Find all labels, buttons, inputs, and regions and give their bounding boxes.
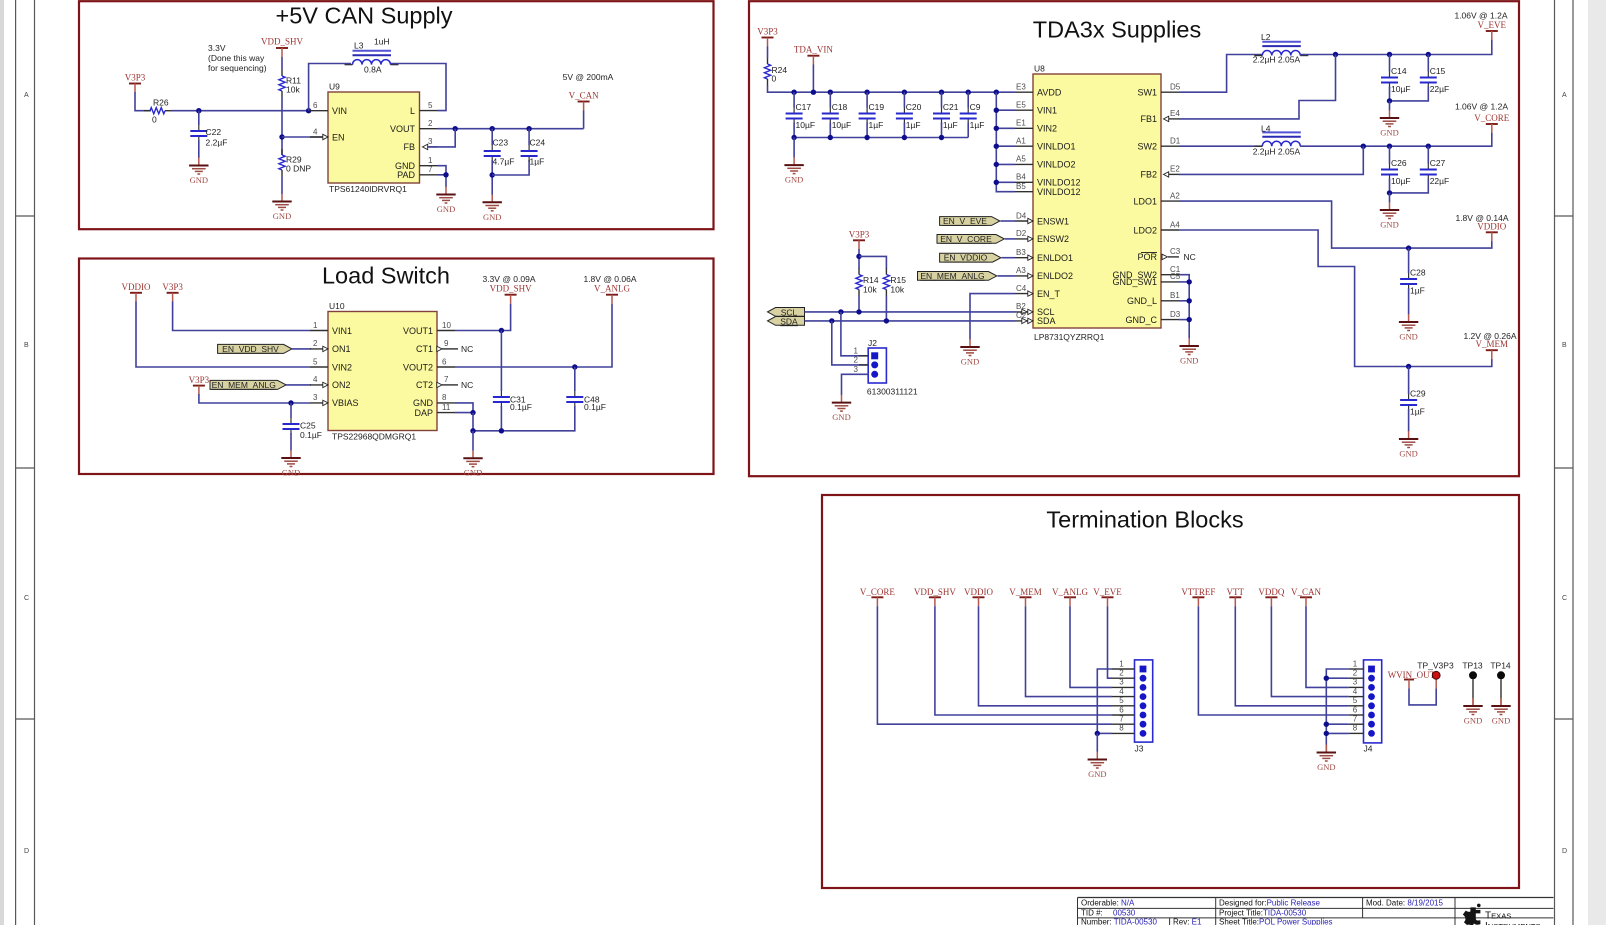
J3 pin 1 (1112, 668, 1135, 670)
svg-text:FB1: FB1 (1140, 114, 1157, 124)
power V_EVE (1093, 587, 1122, 607)
svg-text:V3P3: V3P3 (162, 282, 183, 292)
TI logo (1463, 904, 1541, 925)
svg-text:Sheet Title:POL Power Supplies: Sheet Title:POL Power Supplies (1219, 918, 1333, 925)
capacitor C17 (786, 92, 815, 137)
J3 pin 7 (1112, 723, 1135, 725)
svg-text:6: 6 (442, 357, 447, 366)
svg-text:VTTREF: VTTREF (1181, 587, 1215, 597)
capacitor C23 (484, 129, 515, 167)
svg-text:D3: D3 (1170, 310, 1181, 319)
junction (1426, 52, 1431, 57)
svg-text:1uH: 1uH (374, 37, 390, 47)
svg-text:EN: EN (332, 132, 345, 142)
svg-text:CT2: CT2 (416, 380, 433, 390)
svg-text:V_CORE: V_CORE (860, 587, 896, 597)
svg-text:2: 2 (313, 339, 318, 348)
svg-text:LP8731QYZRRQ1: LP8731QYZRRQ1 (1034, 332, 1105, 342)
wire rail to gnd (472, 431, 474, 451)
junction (1387, 52, 1392, 57)
wire V3P3 to VBIAS (199, 394, 310, 403)
wire L4 to V_CORE (1300, 133, 1492, 147)
wire VOUT net (438, 128, 584, 130)
svg-text:8: 8 (442, 393, 447, 402)
junction (811, 90, 816, 95)
wire V_MEM to J3 pin4 (1026, 606, 1113, 696)
J3 pin 6 (1112, 714, 1135, 716)
capacitor C28 (1400, 248, 1426, 314)
svg-text:ENLDO1: ENLDO1 (1037, 253, 1073, 263)
svg-text:Number: TIDA-00530: Number: TIDA-00530 (1081, 918, 1157, 925)
op-amp U9 TPS61240IDRVRQ1 (310, 82, 438, 195)
power V_MEM (1476, 339, 1509, 359)
J4 pin 5 (1349, 705, 1364, 707)
ground (832, 395, 851, 423)
junction (443, 172, 448, 177)
U8 pin D4 ENSW1 (1015, 211, 1069, 226)
ground (1491, 698, 1510, 726)
power V3P3 pullups (849, 229, 870, 249)
resistor R24 (764, 58, 787, 85)
svg-text:B: B (24, 342, 29, 349)
svg-text:VIN1: VIN1 (332, 326, 352, 336)
ground (784, 157, 803, 185)
J4 pin 2 (1349, 677, 1364, 679)
svg-text:LDO1: LDO1 (1133, 196, 1157, 206)
U8 pin E5 VIN1 (1015, 101, 1057, 116)
wire V3P3 to R24 (767, 47, 769, 59)
U10 pin 11 DAP (414, 403, 455, 418)
wire VDDIO to VIN2 (136, 302, 310, 368)
svg-text:VOUT: VOUT (390, 124, 416, 134)
wire to R15 (859, 256, 886, 269)
svg-text:C: C (1562, 595, 1567, 602)
svg-text:B1: B1 (1170, 291, 1180, 300)
wire VIN bus (996, 92, 1015, 192)
junction (994, 144, 999, 149)
svg-text:10µF: 10µF (832, 120, 852, 130)
wire L2 to V_EVE (1300, 40, 1492, 55)
junction (994, 180, 999, 185)
svg-text:VDDQ: VDDQ (1258, 587, 1284, 597)
flag EN_VDD_SHV (218, 344, 292, 354)
svg-text:U10: U10 (329, 301, 345, 311)
junction (1324, 676, 1329, 681)
svg-text:Project Title:TIDA-00530: Project Title:TIDA-00530 (1219, 908, 1307, 917)
svg-text:C19: C19 (869, 102, 885, 112)
U8 pin B3 ENLDO1 (1015, 248, 1073, 263)
wire bus to gnd (1096, 733, 1098, 752)
wire SDA to J2 pin2 (832, 321, 868, 365)
svg-text:V3P3: V3P3 (125, 73, 146, 83)
wire V_CAN (583, 111, 585, 129)
U10 pin 5 VIN2 (310, 357, 352, 372)
U8 pin A3 ENLDO2 (1015, 266, 1073, 281)
U10 pin 10 VOUT1 (403, 321, 455, 336)
svg-text:C20: C20 (906, 102, 922, 112)
U9 pin 6 VIN (310, 101, 347, 116)
wire J4 pin2 (1326, 677, 1349, 679)
wire C25 top lead (290, 403, 292, 418)
svg-text:D4: D4 (1016, 211, 1027, 220)
wire C23 bottom (491, 160, 493, 195)
svg-text:C26: C26 (1391, 158, 1407, 168)
junction (939, 135, 944, 140)
svg-text:E1: E1 (1016, 119, 1026, 128)
flag SDA (768, 316, 805, 326)
svg-text:3.3V @ 0.09A: 3.3V @ 0.09A (482, 274, 535, 284)
power V_CAN (1291, 587, 1322, 607)
wire GND/PAD tie (438, 166, 447, 175)
svg-text:V_EVE: V_EVE (1093, 587, 1122, 597)
svg-text:1: 1 (854, 347, 859, 356)
capacitor C29 (1400, 367, 1426, 432)
svg-text:0.8A: 0.8A (364, 65, 382, 75)
wire V3P3 to R26 (135, 92, 151, 111)
capacitor C24 (521, 129, 546, 167)
ground (960, 339, 979, 367)
wire SW1 to L2 (1179, 55, 1262, 93)
junction (966, 90, 971, 95)
svg-text:C2: C2 (1016, 311, 1027, 320)
power V_CORE (860, 587, 896, 607)
svg-text:C3: C3 (1170, 247, 1181, 256)
svg-text:TP_V3P3: TP_V3P3 (1417, 661, 1454, 671)
svg-text:D: D (24, 848, 29, 855)
svg-text:1µF: 1µF (869, 120, 884, 130)
block border: TDA3x Supplies (749, 1, 1519, 476)
wire TDA_VIN stub (812, 65, 814, 93)
svg-text:61300311121: 61300311121 (867, 387, 918, 397)
connector J4 (1349, 659, 1382, 753)
ground (436, 187, 455, 215)
wire FB2 sense (1179, 146, 1363, 174)
U9 pin 2 VOUT (390, 119, 438, 134)
wire V3P3 to VIN1 (173, 302, 310, 331)
svg-text:4.7µF: 4.7µF (493, 157, 515, 167)
svg-text:10k: 10k (890, 285, 904, 295)
flag SCL (768, 307, 805, 317)
junction (791, 135, 796, 140)
svg-text:11: 11 (442, 403, 451, 412)
wire C22 lead (198, 111, 200, 125)
svg-text:0 DNP: 0 DNP (286, 164, 311, 174)
svg-text:1.8V @ 0.06A: 1.8V @ 0.06A (583, 274, 636, 284)
U10 pin 8 GND (413, 393, 455, 408)
ground (1088, 752, 1107, 780)
U8 pin B4 VINLDO12 (1015, 173, 1081, 188)
U8 pin C3 POR (1137, 247, 1195, 262)
U10 pin 2 ON1 (310, 339, 351, 354)
junction (1333, 52, 1338, 57)
svg-text:C23: C23 (493, 138, 509, 148)
svg-text:3: 3 (428, 137, 433, 146)
capacitor C22 (190, 125, 227, 148)
svg-text:C22: C22 (206, 127, 222, 137)
svg-text:D2: D2 (1016, 229, 1027, 238)
svg-text:WVIN_OUT: WVIN_OUT (1388, 670, 1436, 680)
svg-text:2: 2 (1119, 669, 1124, 678)
block border: Load Switch (79, 259, 714, 475)
svg-text:LDO2: LDO2 (1133, 225, 1157, 235)
svg-text:J2: J2 (868, 338, 877, 348)
svg-text:2: 2 (854, 356, 859, 365)
junction (1324, 722, 1329, 727)
svg-text:22µF: 22µF (1430, 84, 1450, 94)
U9 pin 3 FB (403, 137, 437, 152)
svg-text:A3: A3 (1016, 266, 1026, 275)
svg-text:E5: E5 (1016, 101, 1026, 110)
svg-text:NC: NC (461, 380, 473, 390)
svg-text:TP14: TP14 (1490, 661, 1511, 671)
capacitor C27 (1390, 146, 1450, 193)
svg-text:7: 7 (444, 375, 449, 384)
junction (994, 90, 999, 95)
wire V3P3 to R14/R15 (858, 249, 860, 269)
svg-text:R15: R15 (890, 275, 906, 285)
svg-text:3: 3 (313, 393, 318, 402)
svg-text:EN_MEM_ANLG: EN_MEM_ANLG (212, 380, 276, 390)
svg-text:FB2: FB2 (1140, 170, 1157, 180)
junction (470, 410, 475, 415)
svg-text:VIN2: VIN2 (1037, 124, 1057, 134)
svg-text:5: 5 (428, 101, 433, 110)
U10 pin 9 CT1 (416, 339, 473, 354)
junction (196, 108, 201, 113)
svg-text:VIN1: VIN1 (1037, 106, 1057, 116)
svg-text:SDA: SDA (1037, 316, 1056, 326)
wire DAP pin11 (455, 412, 473, 414)
wire SCL net (805, 311, 1016, 313)
svg-text:C: C (24, 595, 29, 602)
svg-text:D1: D1 (1170, 137, 1181, 146)
wire VOUT2 to V_ANLG (455, 304, 612, 367)
capacitor C25 (283, 418, 322, 440)
ground (189, 158, 208, 186)
U10 pin 3 VBIAS (310, 393, 359, 408)
U10 pin 6 VOUT2 (403, 357, 455, 372)
svg-text:A1: A1 (1016, 137, 1026, 146)
svg-text:4: 4 (1119, 687, 1124, 696)
svg-text:ON2: ON2 (332, 380, 351, 390)
J2 pin 1 (871, 352, 878, 359)
svg-text:8: 8 (1119, 724, 1124, 733)
wire C25 to gnd (290, 433, 292, 451)
U8 pin E4 FB1 (1140, 109, 1180, 124)
junction (902, 135, 907, 140)
junction (1387, 144, 1392, 149)
inductor L3 (345, 37, 399, 75)
U8 pin D3 GND_C (1125, 310, 1180, 325)
svg-text:2.2µH 2.05A: 2.2µH 2.05A (1253, 55, 1301, 65)
svg-text:A5: A5 (1016, 155, 1026, 164)
svg-text:ENLDO2: ENLDO2 (1037, 271, 1073, 281)
svg-text:B4: B4 (1016, 173, 1026, 182)
svg-text:ENSW2: ENSW2 (1037, 234, 1069, 244)
svg-text:5V @ 200mA: 5V @ 200mA (563, 72, 614, 82)
wire VTT to J4 pin5 (1235, 606, 1349, 706)
power V_ANLG (1052, 587, 1088, 607)
junction (306, 108, 311, 113)
svg-text:10µF: 10µF (1391, 84, 1411, 94)
svg-text:C5: C5 (1170, 272, 1181, 281)
svg-text:V3P3: V3P3 (757, 27, 778, 37)
svg-text:22µF: 22µF (1430, 176, 1450, 186)
wire J3 pin1 to gnd bus (1097, 669, 1112, 733)
U8 pin B5 VINLDO12 (1015, 182, 1081, 197)
junction (526, 126, 531, 131)
svg-text:EN_VDD_SHV: EN_VDD_SHV (222, 344, 279, 354)
J3 pin 3 (1112, 686, 1135, 688)
wire V_ANLG to J3 pin3 (1070, 606, 1112, 687)
test point TP14 (1490, 661, 1511, 706)
U8 pin D1 SW2 (1137, 137, 1180, 152)
wire VIN node up to L3 (309, 64, 351, 111)
svg-text:GND_L: GND_L (1127, 296, 1157, 306)
junction (1361, 144, 1366, 149)
junction (453, 126, 458, 131)
J4 pin 8 (1349, 732, 1364, 734)
U8 pin B1 GND_L (1127, 291, 1180, 306)
svg-text:1.06V @ 1.2A: 1.06V @ 1.2A (1455, 102, 1508, 112)
wire C23-C24 bottom tie (492, 160, 529, 175)
capacitor C18 (822, 92, 851, 137)
svg-text:VDDIO: VDDIO (122, 282, 151, 292)
wire bus tee VINLDO1 (996, 145, 1015, 147)
wire R24 to AVDD rail (768, 85, 1016, 92)
svg-text:2: 2 (428, 119, 433, 128)
svg-text:10µF: 10µF (1391, 176, 1411, 186)
power VDD_SHV out (490, 284, 533, 304)
svg-text:VOUT1: VOUT1 (403, 326, 433, 336)
svg-text:0.1µF: 0.1µF (510, 402, 532, 412)
U10 pin 4 ON2 (310, 375, 351, 390)
resistor R14 (856, 269, 879, 296)
svg-text:C18: C18 (832, 102, 848, 112)
svg-text:R26: R26 (153, 98, 169, 108)
junction (288, 400, 293, 405)
junction (499, 428, 504, 433)
op-amp U10 TPS22968QDMGRQ1 (310, 301, 473, 442)
svg-text:U8: U8 (1034, 64, 1045, 74)
svg-text:for sequencing): for sequencing) (208, 63, 267, 73)
U8 pin E3 AVDD (1015, 83, 1062, 98)
svg-text:A2: A2 (1170, 191, 1180, 200)
wire FB1 sense (1179, 55, 1336, 119)
svg-text:VBIAS: VBIAS (332, 398, 359, 408)
svg-text:EN_MEM_ANLG: EN_MEM_ANLG (920, 271, 984, 281)
wire GND_SW2/SW1/L/C bus (1179, 275, 1189, 339)
svg-text:B: B (1562, 342, 1567, 349)
U8 pin C2 SDA (1015, 311, 1056, 326)
svg-text:10µF: 10µF (796, 120, 816, 130)
capacitor C26 (1381, 146, 1411, 193)
J3 pin 4 (1112, 696, 1135, 698)
svg-text:TPS22968QDMGRQ1: TPS22968QDMGRQ1 (332, 432, 416, 442)
wire bus tee VINLDO12 (996, 181, 1015, 183)
svg-text:4: 4 (313, 375, 318, 384)
svg-text:C14: C14 (1391, 66, 1407, 76)
J4 pin 1 (1349, 668, 1364, 670)
svg-text:FB: FB (403, 142, 415, 152)
op-amp U8 LP8731QYZRRQ1 (1015, 64, 1196, 343)
ground (1317, 745, 1336, 773)
U8 pin A1 VINLDO1 (1015, 137, 1076, 152)
wire flag to ON1 (292, 348, 311, 350)
junction (1187, 298, 1192, 303)
wire rail to gnd (793, 138, 795, 158)
junction (1095, 731, 1100, 736)
U8 pin A5 VINLDO2 (1015, 155, 1076, 170)
svg-text:1µF: 1µF (943, 120, 958, 130)
junction (864, 135, 869, 140)
svg-text:J3: J3 (1135, 744, 1144, 754)
wire bottom cap rail (794, 137, 968, 139)
wire C31 to rail (500, 406, 502, 431)
svg-text:V_CORE: V_CORE (1474, 113, 1510, 123)
svg-text:0.1µF: 0.1µF (584, 402, 606, 412)
wire SCL to J2 pin1 (841, 312, 868, 356)
wire VDDIO to J3 pin5 (979, 606, 1113, 706)
resistor R26 (144, 98, 171, 125)
wire bus tee VIN1 (996, 109, 1015, 111)
J2 pin 3 (871, 371, 878, 378)
svg-text:0.1µF: 0.1µF (300, 430, 322, 440)
svg-text:C27: C27 (1430, 158, 1446, 168)
U8 pin B2 SCL (1015, 302, 1055, 317)
svg-text:V_MEM: V_MEM (1476, 339, 1509, 349)
block border: +5V CAN Supply (79, 1, 714, 229)
svg-text:L: L (410, 106, 415, 116)
svg-text:1: 1 (428, 156, 433, 165)
junction (1387, 190, 1392, 195)
svg-text:L3: L3 (354, 41, 364, 51)
svg-text:0: 0 (152, 115, 157, 125)
flag EN_V_EVE (940, 216, 1015, 226)
ground (1380, 110, 1399, 138)
U8 pin A2 LDO1 (1133, 191, 1180, 206)
wire FB feedback (428, 129, 455, 147)
power V_EVE (1478, 20, 1507, 40)
wire VDDQ to J4 pin4 (1271, 606, 1348, 696)
wire EN_T to gnd (970, 294, 1015, 340)
svg-text:C9: C9 (970, 102, 981, 112)
U8 pin C5 GND_SW1 (1112, 272, 1180, 287)
svg-text:Load Switch: Load Switch (322, 263, 450, 289)
junction (829, 318, 834, 323)
junction (1387, 98, 1392, 103)
wire R14 to SCL (858, 296, 860, 312)
U9 pin 7 PAD (397, 165, 437, 180)
J3 pin 5 (1112, 705, 1135, 707)
wire LDO2 to V_MEM rail (1179, 230, 1492, 367)
svg-text:Termination Blocks: Termination Blocks (1046, 507, 1243, 533)
svg-text:9: 9 (444, 339, 449, 348)
svg-text:EN_V_EVE: EN_V_EVE (943, 216, 987, 226)
svg-text:V_CAN: V_CAN (1291, 587, 1322, 597)
power VDD_SHV (261, 37, 304, 58)
J4 pin 6 (1349, 714, 1364, 716)
svg-text:C4: C4 (1016, 284, 1027, 293)
junction (791, 90, 796, 95)
svg-text:8: 8 (1353, 724, 1358, 733)
svg-text:V_ANLG: V_ANLG (1052, 587, 1088, 597)
wire bus tee VINLDO2 (996, 163, 1015, 165)
svg-text:1µF: 1µF (1410, 286, 1425, 296)
svg-text:V_MEM: V_MEM (1009, 587, 1042, 597)
connector J3 (1112, 659, 1153, 753)
svg-text:A: A (1562, 92, 1567, 99)
